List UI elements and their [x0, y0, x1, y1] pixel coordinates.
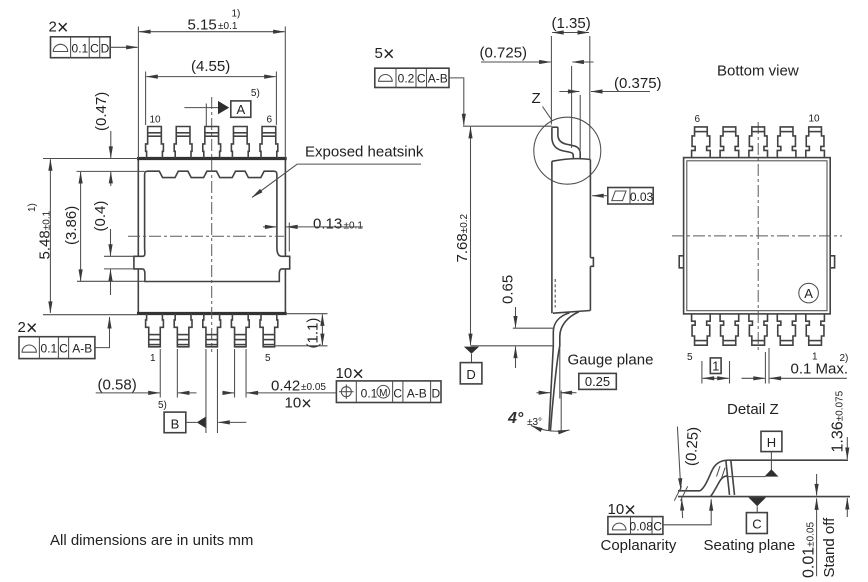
svg-text:1: 1 — [150, 353, 156, 364]
svg-text:0.2: 0.2 — [398, 72, 415, 86]
side view bottom lead — [549, 313, 570, 431]
svg-text:B: B — [171, 416, 180, 431]
svg-text:±0.05: ±0.05 — [301, 382, 326, 393]
top view upper pin 6 — [260, 127, 278, 159]
svg-text:(1.35): (1.35) — [552, 15, 591, 32]
svg-text:Gauge plane: Gauge plane — [568, 352, 654, 369]
dimension (1.35) — [550, 36, 552, 125]
bottom view right tab — [830, 256, 834, 268]
svg-text:5: 5 — [265, 353, 271, 364]
svg-text:4°: 4° — [507, 410, 524, 427]
side view top lead — [552, 126, 558, 128]
bottom view horizontal centerline — [672, 235, 842, 237]
svg-text:0.25: 0.25 — [585, 374, 610, 389]
svg-text:0.13: 0.13 — [313, 216, 342, 233]
dimension 0.42±0.05 10× lead width — [234, 349, 236, 398]
svg-text:D: D — [431, 386, 440, 400]
svg-text:5): 5) — [158, 400, 167, 411]
top view upper pin 7 — [231, 127, 249, 159]
svg-text:6: 6 — [695, 114, 701, 125]
svg-text:5): 5) — [251, 88, 260, 99]
svg-text:±3°: ±3° — [527, 417, 542, 428]
svg-text:(0.25): (0.25) — [683, 426, 703, 466]
bottom view vertical centerline — [757, 122, 759, 352]
boxed basic dimension 1 (pitch) — [710, 358, 721, 374]
dimension 0.1 Max. with note 2) — [764, 352, 766, 384]
svg-text:Z: Z — [532, 90, 541, 107]
svg-text:Seating plane: Seating plane — [704, 537, 796, 554]
svg-text:0.1: 0.1 — [361, 386, 378, 400]
bottom view upper pin 8 — [749, 127, 768, 158]
detail Z lead foot profile — [678, 490, 700, 492]
bottom view upper pin 9 — [777, 127, 796, 158]
svg-text:0.1: 0.1 — [41, 342, 58, 356]
top view upper pin 9 — [174, 127, 192, 159]
datum A box — [231, 101, 251, 117]
svg-text:M: M — [379, 388, 387, 399]
svg-text:0.65: 0.65 — [500, 275, 517, 304]
dimension 5.15±0.1 with note 1) — [137, 27, 139, 159]
top view lower pin 3 — [203, 314, 221, 347]
datum H box and triangle — [761, 431, 782, 451]
top view lower pin 4 — [231, 314, 249, 347]
dimension 7.68±0.2 — [463, 125, 552, 127]
svg-text:H: H — [767, 435, 776, 450]
bottom view upper pin 10 — [806, 127, 825, 158]
top view upper pin 10 — [146, 127, 164, 159]
svg-text:A: A — [236, 102, 245, 117]
svg-text:(3.86): (3.86) — [63, 206, 80, 245]
svg-text:1): 1) — [232, 9, 241, 20]
svg-text:C: C — [393, 386, 402, 400]
svg-text:C: C — [752, 517, 761, 532]
svg-text:0.1: 0.1 — [72, 41, 89, 55]
svg-text:Detail Z: Detail Z — [727, 401, 779, 418]
bottom view lower pin 4 — [720, 314, 739, 345]
svg-text:A: A — [804, 286, 813, 301]
svg-text:(1.1): (1.1) — [305, 318, 322, 349]
svg-text:(0.47): (0.47) — [93, 92, 110, 131]
top view lower pin 1 — [146, 314, 164, 347]
top view upper pin 8 — [203, 127, 221, 159]
svg-text:Coplanarity: Coplanarity — [601, 537, 677, 554]
circled datum A — [799, 283, 819, 303]
svg-text:A-B: A-B — [72, 342, 92, 356]
svg-text:C: C — [59, 342, 68, 356]
svg-text:Exposed heatsink: Exposed heatsink — [305, 144, 424, 161]
svg-text:±0.1: ±0.1 — [218, 21, 238, 32]
svg-text:(0.4): (0.4) — [92, 201, 109, 232]
datum A target arrow — [184, 107, 219, 109]
boxed 0.25 — [579, 373, 617, 389]
svg-text:All dimensions are in units mm: All dimensions are in units mm — [50, 532, 253, 549]
svg-text:0.42: 0.42 — [271, 378, 300, 395]
break marks — [674, 486, 681, 500]
dimension (0.25) lead thickness — [677, 427, 680, 490]
side view body — [551, 161, 553, 313]
gauge plane line — [725, 476, 765, 478]
top view package body outline — [137, 159, 139, 257]
horizontal centerline — [128, 235, 284, 237]
svg-text:A-B: A-B — [428, 72, 448, 86]
bend tick marks — [717, 466, 721, 476]
svg-text:(0.58): (0.58) — [98, 377, 137, 394]
bottom view upper pin 7 — [720, 127, 739, 158]
bottom view body outline — [684, 158, 831, 314]
svg-text:D: D — [466, 367, 475, 382]
exposed pad hidden edge (dashed) — [554, 279, 556, 308]
seating plane extension line — [471, 345, 554, 347]
side view mold tab — [590, 258, 593, 267]
dimension 0.65 — [513, 327, 554, 329]
bottom view left tab — [679, 256, 683, 268]
svg-text:10: 10 — [150, 115, 162, 126]
datum C triangle and box — [748, 497, 766, 506]
svg-text:Bottom view: Bottom view — [717, 63, 799, 80]
vertical centerline — [211, 97, 213, 352]
svg-text:6: 6 — [267, 115, 273, 126]
top view lower pin 2 — [174, 314, 192, 347]
svg-text:5: 5 — [687, 352, 693, 363]
bottom view lower pin 5 — [692, 314, 711, 345]
dimension 0.25 arrows — [559, 348, 561, 399]
top view lower pin 5 — [260, 314, 278, 347]
svg-text:±0.1: ±0.1 — [344, 221, 364, 232]
svg-text:C: C — [90, 41, 99, 55]
svg-text:D: D — [101, 41, 110, 55]
bottom view upper pin 6 — [692, 127, 711, 158]
svg-text:1): 1) — [27, 203, 38, 212]
svg-text:5.15: 5.15 — [188, 17, 217, 34]
detail circle Z — [534, 117, 601, 184]
dimension 0.01±0.05 stand off — [816, 474, 818, 495]
bottom view lower pin 1 — [806, 314, 825, 345]
svg-text:(0.375): (0.375) — [614, 75, 662, 92]
exposed heatsink outline with side tabs — [134, 171, 290, 281]
datum D triangle and box — [464, 347, 479, 354]
svg-text:1: 1 — [712, 358, 719, 373]
svg-text:C: C — [653, 520, 662, 534]
flatness frame 0.03 — [608, 188, 653, 205]
bottom view lower pin 2 — [777, 314, 796, 345]
svg-text:Stand off: Stand off — [821, 517, 838, 578]
svg-text:0.08: 0.08 — [630, 520, 654, 534]
svg-text:2): 2) — [840, 353, 849, 364]
dimension (4.55) — [145, 72, 147, 126]
svg-text:(4.55): (4.55) — [191, 58, 230, 75]
svg-text:10: 10 — [809, 114, 821, 125]
seating plane line — [678, 496, 850, 498]
svg-text:A-B: A-B — [407, 386, 427, 400]
svg-text:(0.725): (0.725) — [480, 45, 528, 62]
dimension 1.36±0.075 — [846, 437, 848, 459]
svg-text:10×: 10× — [285, 394, 312, 414]
svg-text:0.03: 0.03 — [630, 190, 654, 204]
bottom view lower pin 3 — [749, 314, 768, 345]
svg-text:C: C — [417, 72, 426, 86]
